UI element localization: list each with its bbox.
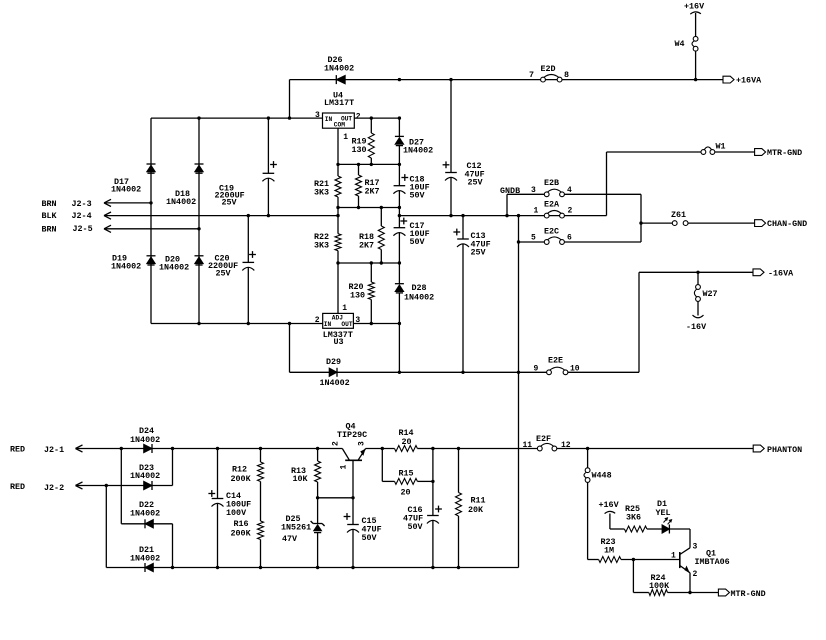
svg-text:CHAN-GND: CHAN-GND — [767, 219, 807, 229]
svg-text:7: 7 — [529, 70, 534, 80]
svg-text:D29: D29 — [326, 357, 341, 367]
svg-text:1N4002: 1N4002 — [130, 471, 160, 481]
svg-text:9: 9 — [534, 365, 539, 374]
svg-text:200K: 200K — [231, 528, 252, 538]
svg-text:50V: 50V — [410, 191, 426, 201]
svg-text:1N4002: 1N4002 — [130, 435, 160, 445]
svg-text:-16VA: -16VA — [768, 268, 794, 278]
svg-text:1N4002: 1N4002 — [320, 378, 350, 388]
svg-text:IN: IN — [324, 321, 332, 328]
svg-text:3: 3 — [358, 441, 367, 446]
svg-text:IN: IN — [325, 116, 333, 123]
svg-text:25V: 25V — [471, 248, 487, 258]
svg-text:+16VA: +16VA — [736, 76, 762, 86]
svg-text:25V: 25V — [216, 269, 232, 279]
svg-text:2: 2 — [693, 570, 698, 579]
svg-text:+16V: +16V — [599, 500, 620, 510]
svg-text:E2E: E2E — [548, 356, 563, 366]
svg-text:TIP29C: TIP29C — [337, 430, 367, 440]
svg-text:W27: W27 — [703, 289, 718, 299]
svg-text:8: 8 — [564, 70, 569, 80]
svg-text:R11: R11 — [471, 496, 486, 506]
svg-text:1N4002: 1N4002 — [111, 185, 141, 195]
svg-text:100K: 100K — [649, 581, 670, 591]
svg-text:4: 4 — [567, 186, 572, 195]
svg-text:1N4002: 1N4002 — [159, 262, 189, 272]
svg-text:1N4002: 1N4002 — [404, 292, 434, 302]
svg-text:RED: RED — [10, 482, 25, 492]
svg-text:E2D: E2D — [541, 64, 556, 74]
svg-text:MTR-GND: MTR-GND — [767, 148, 802, 158]
svg-text:1: 1 — [340, 465, 349, 470]
svg-text:1N4002: 1N4002 — [166, 197, 196, 207]
svg-text:1M: 1M — [604, 546, 614, 556]
svg-text:3: 3 — [693, 543, 698, 552]
svg-text:R16: R16 — [234, 519, 249, 529]
svg-text:25V: 25V — [468, 178, 484, 188]
svg-text:LM317T: LM317T — [324, 98, 354, 108]
svg-text:BLK: BLK — [42, 211, 58, 221]
svg-text:R12: R12 — [232, 464, 247, 474]
svg-text:5: 5 — [531, 234, 536, 243]
svg-text:MTR-GND: MTR-GND — [731, 589, 766, 599]
svg-text:R15: R15 — [399, 468, 414, 478]
svg-text:20: 20 — [402, 437, 412, 447]
svg-text:J2-4: J2-4 — [72, 211, 92, 221]
svg-text:2: 2 — [356, 112, 361, 121]
svg-text:3K6: 3K6 — [626, 513, 641, 523]
svg-text:50V: 50V — [410, 237, 426, 247]
svg-text:BRN: BRN — [42, 199, 57, 209]
svg-text:25V: 25V — [222, 197, 238, 207]
svg-text:20K: 20K — [468, 505, 484, 515]
svg-text:200K: 200K — [231, 474, 252, 484]
svg-text:J2-2: J2-2 — [44, 483, 64, 493]
svg-text:W1: W1 — [716, 141, 726, 151]
svg-text:1N4002: 1N4002 — [403, 146, 433, 156]
svg-text:COM: COM — [334, 122, 345, 129]
svg-text:E2A: E2A — [544, 200, 560, 210]
svg-text:GNDB: GNDB — [500, 186, 520, 196]
svg-text:J2-5: J2-5 — [73, 224, 93, 234]
svg-text:1: 1 — [342, 304, 347, 313]
svg-text:RED: RED — [10, 445, 25, 455]
svg-text:J2-3: J2-3 — [72, 199, 92, 209]
svg-text:W448: W448 — [592, 471, 612, 481]
svg-text:YEL: YEL — [656, 508, 671, 518]
svg-text:E2F: E2F — [536, 434, 551, 444]
svg-text:2: 2 — [568, 207, 573, 216]
svg-text:6: 6 — [567, 234, 572, 243]
svg-text:50V: 50V — [362, 533, 378, 543]
svg-text:100V: 100V — [226, 508, 247, 518]
svg-text:E2B: E2B — [544, 178, 559, 188]
svg-text:E2C: E2C — [544, 227, 559, 237]
svg-text:Z61: Z61 — [671, 210, 686, 220]
svg-text:2K7: 2K7 — [359, 241, 374, 251]
svg-text:1N4002: 1N4002 — [111, 261, 141, 271]
svg-text:50V: 50V — [408, 522, 424, 532]
svg-text:130: 130 — [352, 145, 367, 155]
svg-text:1: 1 — [343, 133, 348, 142]
svg-text:20: 20 — [401, 487, 411, 497]
svg-text:J2-1: J2-1 — [44, 445, 64, 455]
svg-text:+16V: +16V — [684, 2, 705, 12]
svg-text:BRN: BRN — [42, 225, 57, 235]
svg-text:2K7: 2K7 — [365, 187, 380, 197]
svg-text:1N4002: 1N4002 — [324, 63, 354, 73]
svg-text:U3: U3 — [334, 337, 344, 347]
svg-text:PHANTON: PHANTON — [767, 445, 802, 455]
svg-text:OUT: OUT — [341, 321, 352, 328]
svg-text:1: 1 — [671, 551, 676, 560]
svg-text:3: 3 — [531, 186, 536, 195]
svg-text:-16V: -16V — [686, 322, 707, 332]
svg-text:IMBTA06: IMBTA06 — [695, 557, 730, 567]
svg-text:1N4002: 1N4002 — [130, 509, 160, 519]
svg-text:1N5261: 1N5261 — [281, 523, 311, 533]
svg-text:12: 12 — [561, 441, 571, 450]
svg-text:47V: 47V — [282, 534, 298, 544]
svg-text:1: 1 — [534, 207, 539, 216]
svg-text:3: 3 — [315, 111, 320, 120]
svg-text:11: 11 — [523, 441, 533, 450]
svg-text:2: 2 — [332, 441, 341, 446]
svg-text:3K3: 3K3 — [314, 241, 329, 251]
svg-text:10K: 10K — [293, 474, 309, 484]
svg-text:W4: W4 — [675, 39, 685, 49]
svg-text:130: 130 — [350, 290, 365, 300]
svg-text:1N4002: 1N4002 — [130, 553, 160, 563]
svg-text:3K3: 3K3 — [314, 188, 329, 198]
